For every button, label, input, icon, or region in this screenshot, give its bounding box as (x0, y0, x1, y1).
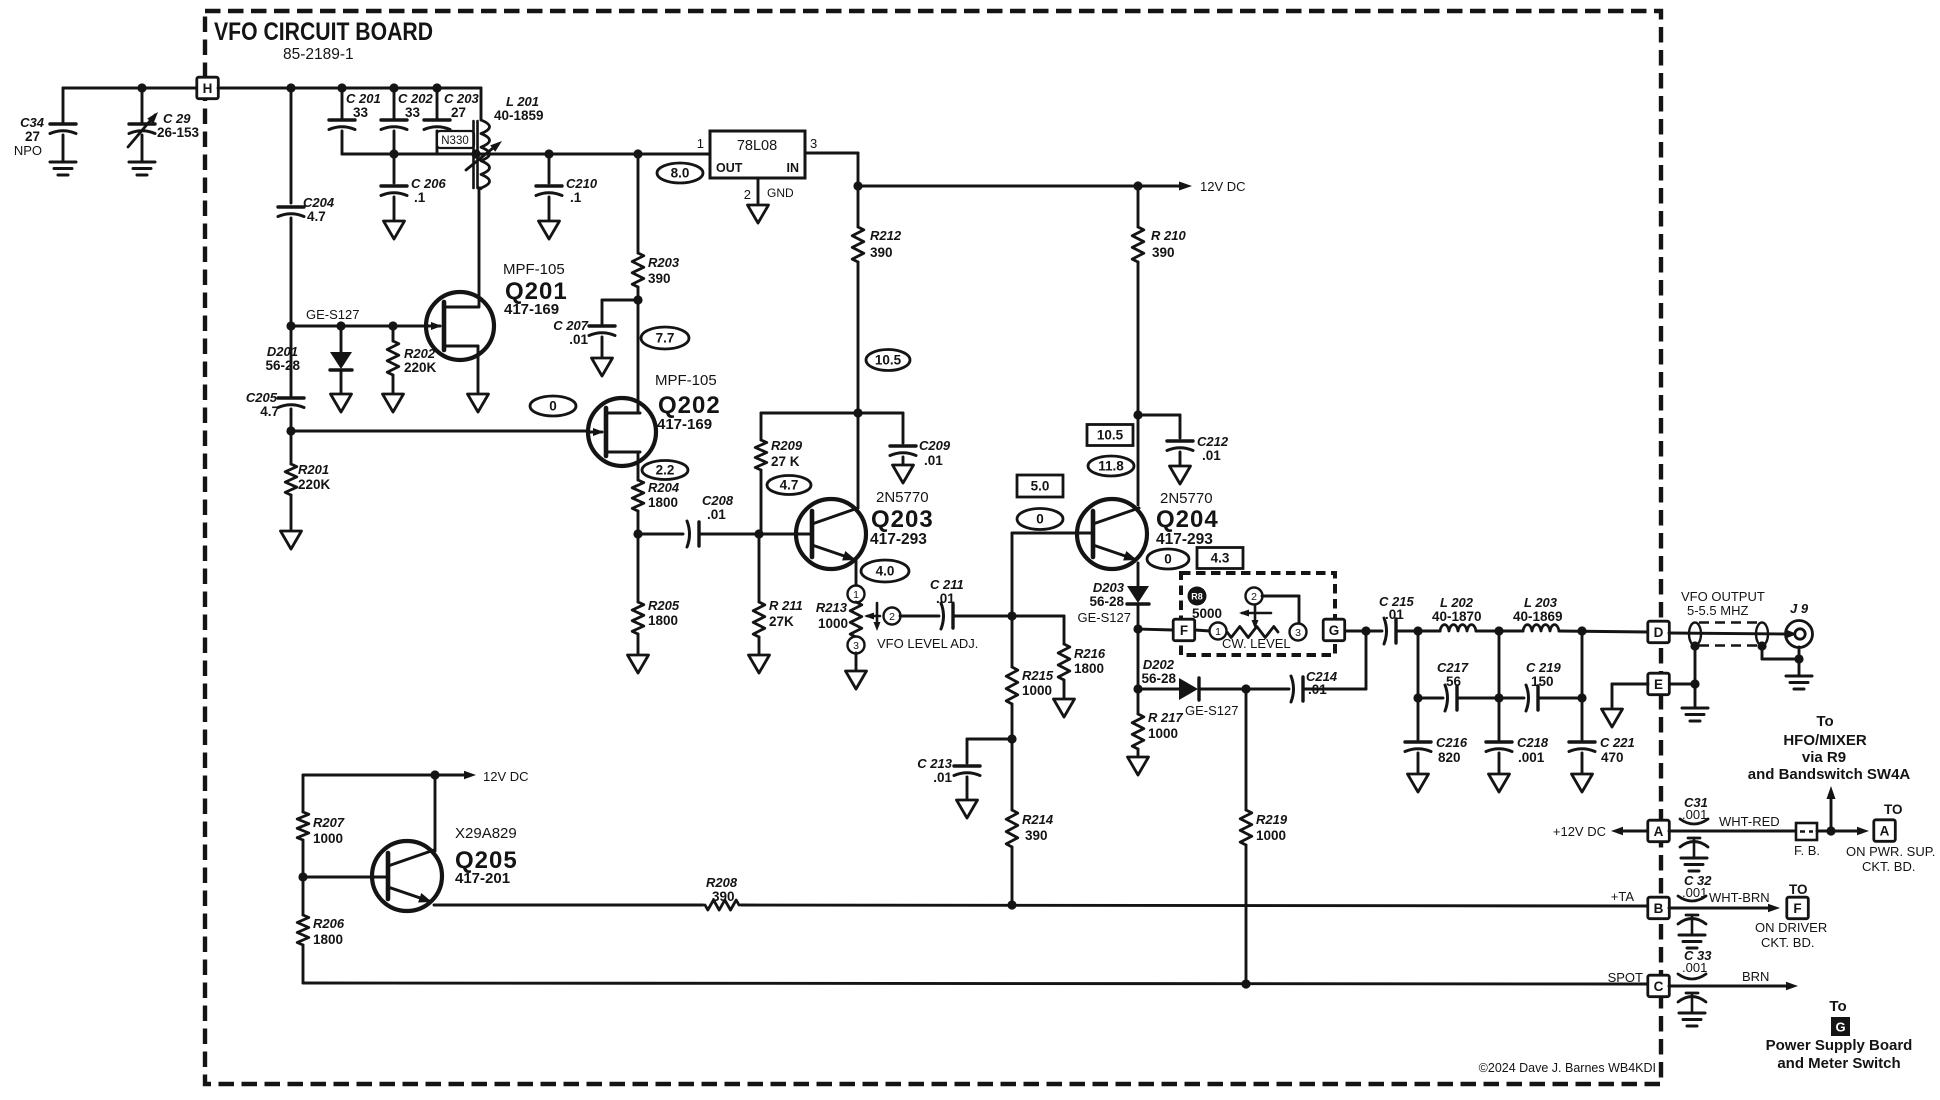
wire to F box (1138, 629, 1173, 630)
resistor R203 (637, 154, 640, 253)
ferrite bead FB box (1796, 823, 1817, 840)
svg-text:C 207: C 207 (553, 318, 588, 333)
svg-text:78L08: 78L08 (737, 138, 777, 154)
svg-text:.001: .001 (1518, 750, 1545, 765)
svg-text:R208: R208 (706, 875, 738, 890)
capacitor C213 (967, 738, 1012, 741)
svg-text:0: 0 (1164, 552, 1172, 567)
svg-text:56: 56 (1446, 674, 1462, 689)
potentiometer R213 terminal 3 (848, 637, 865, 654)
potentiometer R213 wiper arrows (867, 615, 880, 618)
svg-text:R204: R204 (648, 480, 680, 495)
potentiometer R8 terminal 2 (1246, 588, 1263, 605)
svg-text:Q202: Q202 (658, 392, 721, 419)
junction dot R209 R211 base net (754, 529, 763, 538)
svg-text:40-1859: 40-1859 (494, 108, 544, 123)
wire Q201 source to ground (477, 346, 480, 394)
wire C216 drop (1417, 631, 1420, 698)
svg-text:X29A829: X29A829 (455, 825, 517, 842)
svg-text:1: 1 (853, 589, 859, 601)
wire 12V DC feed at Q205 (303, 774, 468, 777)
capacitor C221 to ground (1581, 698, 1584, 740)
junction dot R203 bottom C207 branch (633, 295, 642, 304)
svg-text:417-169: 417-169 (657, 416, 712, 433)
junction dot C214 riser (1361, 626, 1370, 635)
svg-text:10.5: 10.5 (875, 353, 902, 368)
svg-text:R203: R203 (648, 255, 680, 270)
capacitor C209 (890, 444, 916, 447)
dashed box CW LEVEL control (1181, 573, 1335, 655)
svg-text:C 219: C 219 (1526, 660, 1561, 675)
transistor Q204 2N5770 (1077, 499, 1147, 569)
svg-text:1000: 1000 (313, 831, 343, 846)
voltage callout 5.0 box (1017, 475, 1063, 497)
resistor R209 (760, 413, 763, 440)
svg-text:27: 27 (25, 129, 40, 144)
svg-text:R 210: R 210 (1151, 228, 1186, 243)
capacitor C211 (941, 603, 944, 629)
wire to C214 (1246, 688, 1289, 691)
arrow up to HFO MIXER (1830, 794, 1833, 831)
junction dot C213 R214 node (1007, 734, 1016, 743)
svg-text:C209: C209 (919, 438, 951, 453)
label N330 box (437, 131, 474, 148)
wire B to F arrow (1669, 907, 1772, 910)
wire main rail through L201 to 78L08 (481, 153, 710, 156)
svg-text:CKT. BD.: CKT. BD. (1761, 935, 1814, 950)
junction dot C221 branch (1577, 626, 1586, 635)
svg-text:IN: IN (787, 161, 800, 175)
wire Q204 base (1012, 532, 1093, 535)
wire to C209 (858, 412, 903, 415)
capacitor C216 to ground (1417, 698, 1420, 740)
svg-text:1000: 1000 (1256, 828, 1286, 843)
svg-text:L 201: L 201 (506, 94, 539, 109)
svg-text:C212: C212 (1197, 434, 1229, 449)
junction dot R212 top (853, 181, 862, 190)
svg-text:H: H (203, 81, 213, 96)
svg-text:10.5: 10.5 (1097, 428, 1124, 443)
pin 2 GND lead (757, 178, 760, 205)
svg-text:CW. LEVEL: CW. LEVEL (1222, 636, 1291, 651)
wire A to +12V arrow (1618, 830, 1648, 833)
svg-text:TO: TO (1884, 802, 1903, 817)
svg-text:5-5.5 MHZ: 5-5.5 MHZ (1687, 603, 1748, 618)
svg-text:G: G (1329, 623, 1340, 638)
svg-text:C 202: C 202 (398, 91, 433, 106)
svg-text:33: 33 (405, 105, 421, 120)
voltage callout 2.2 oval (642, 461, 688, 480)
wire gate net Q201 (291, 325, 426, 328)
wire to R216 (1012, 615, 1064, 618)
svg-text:B: B (1654, 901, 1664, 916)
junction dot C29 top (137, 83, 146, 92)
svg-text:1: 1 (1215, 626, 1221, 638)
svg-text:and Meter Switch: and Meter Switch (1777, 1055, 1900, 1072)
wire Q203 emitter to R213 (855, 560, 858, 586)
svg-text:E: E (1654, 677, 1663, 692)
voltage callout 7.7 oval (641, 327, 689, 349)
svg-text:2N5770: 2N5770 (876, 489, 929, 506)
svg-text:4.0: 4.0 (876, 564, 895, 579)
svg-text:©2024 Dave J. Barnes WB4KDI: ©2024 Dave J. Barnes WB4KDI (1479, 1061, 1656, 1075)
svg-text:.01: .01 (569, 332, 588, 347)
wire J9 shell to ground (1798, 647, 1801, 674)
voltage callout 4.0 oval (861, 560, 909, 582)
junction dot R212 C209 node (853, 408, 862, 417)
wire SPOT bus (303, 983, 1648, 984)
wire 78L08 IN to 12V rail (805, 152, 858, 155)
svg-text:417-293: 417-293 (870, 531, 927, 548)
resistor R212 (857, 186, 860, 227)
coax shield right ellipse (1756, 623, 1768, 646)
junction dot D201 top (336, 321, 345, 330)
junction dot R201 top (286, 426, 295, 435)
wire top rail from C34 to H (63, 87, 197, 90)
junction dot L201 wire crossing (471, 149, 480, 158)
junction dot R204 bottom (633, 529, 642, 538)
junction dot C203 (432, 83, 441, 92)
diode D202 (1138, 688, 1179, 691)
capacitor C201 (341, 88, 344, 120)
junction dot R214 bottom (1007, 900, 1016, 909)
svg-text:C 206: C 206 (411, 176, 446, 191)
junction dot C212 branch (1133, 410, 1142, 419)
wire C to BRN arrow (1669, 985, 1790, 988)
ground for R202 (383, 394, 404, 412)
voltage callout 4.3 box (1197, 548, 1243, 569)
resistor R216 (1063, 616, 1066, 644)
svg-text:C205: C205 (246, 390, 278, 405)
connector C box on border (1648, 975, 1670, 997)
junction dot D202 anode node (1133, 684, 1142, 693)
junction dot coax shield left (1690, 641, 1699, 650)
svg-text:F: F (1793, 901, 1801, 916)
svg-text:417-293: 417-293 (1156, 531, 1213, 548)
svg-text:L 202: L 202 (1440, 595, 1474, 610)
junction dot C216 C217 node (1413, 693, 1422, 702)
voltage callout 0 oval at Q204 emitter (1147, 549, 1189, 569)
voltage callout 0 oval at Q202 gate (530, 396, 576, 416)
wire C221 drop (1581, 631, 1584, 698)
wire top oscillator rail H to L201 (218, 87, 481, 90)
svg-text:VFO OUTPUT: VFO OUTPUT (1681, 589, 1765, 604)
resistor R210 (1137, 186, 1140, 227)
junction dot gate wire left (286, 321, 295, 330)
wire coax shield left to ground (1694, 646, 1697, 706)
wire C219 row (1499, 697, 1524, 700)
svg-text:CKT. BD.: CKT. BD. (1862, 859, 1915, 874)
diode D203 (1127, 586, 1149, 603)
svg-text:D202: D202 (1143, 657, 1175, 672)
svg-text:+TA: +TA (1611, 889, 1635, 904)
wire Q205 collector riser (434, 775, 437, 851)
connector D box on border (1648, 621, 1670, 643)
front panel control R8 bubble (1188, 587, 1207, 606)
wire L202 to L203 (1476, 630, 1523, 633)
svg-text:C 211: C 211 (930, 577, 964, 592)
svg-text:7.7: 7.7 (656, 331, 675, 346)
capacitor C202 (393, 88, 396, 120)
capacitor C34 (62, 88, 65, 124)
inductor L201 core bars (472, 121, 475, 188)
junction dot C210 (544, 149, 553, 158)
capacitor C204 (290, 88, 293, 203)
potentiometer R8 wiper arrows (1242, 612, 1271, 615)
svg-text:390: 390 (712, 889, 735, 904)
capacitor C203 (436, 88, 439, 120)
svg-text:C: C (1654, 979, 1664, 994)
svg-text:390: 390 (648, 271, 671, 286)
svg-text:R205: R205 (648, 598, 680, 613)
svg-text:1800: 1800 (313, 932, 343, 947)
potentiometer R8 resistor (1227, 627, 1278, 638)
svg-text:390: 390 (1025, 828, 1048, 843)
svg-text:4.7: 4.7 (780, 478, 799, 493)
svg-text:5000: 5000 (1192, 606, 1222, 621)
ground for 78L08 (748, 205, 769, 223)
wire C211 to R215 node (953, 615, 1012, 618)
wire Q204 emitter to D203 (1137, 563, 1140, 586)
svg-text:VFO LEVEL ADJ.: VFO LEVEL ADJ. (877, 636, 978, 651)
junction dot C221 node (1577, 693, 1586, 702)
svg-text:To: To (1829, 998, 1846, 1015)
feedthrough capacitor C33 (1678, 974, 1706, 979)
wire C219 to C221 node (1538, 697, 1582, 700)
svg-text:40-1869: 40-1869 (1513, 609, 1563, 624)
regulator U201 78L08 box (710, 131, 805, 178)
svg-text:56-28: 56-28 (1141, 671, 1176, 686)
svg-text:220K: 220K (298, 477, 331, 492)
svg-text:D: D (1654, 625, 1664, 640)
junction dot R215 Q204 base node (1007, 611, 1016, 620)
inductor L201 tuning arrow (466, 144, 498, 170)
feedthrough capacitor C32 (1678, 896, 1706, 901)
svg-text:40-1870: 40-1870 (1432, 609, 1482, 624)
svg-text:Power Supply Board: Power Supply Board (1766, 1037, 1913, 1054)
wire C217 to C218 node (1457, 697, 1499, 700)
svg-text:85-2189-1: 85-2189-1 (283, 46, 354, 63)
connector B box on border (1648, 897, 1670, 919)
svg-text:470: 470 (1601, 750, 1624, 765)
svg-text:NPO: NPO (14, 143, 42, 158)
svg-text:+12V DC: +12V DC (1553, 824, 1606, 839)
wire Q205 base (303, 876, 388, 879)
coax shield dashed lines (1699, 621, 1760, 623)
junction dot R219 bottom (1241, 979, 1250, 988)
svg-text:ON DRIVER: ON DRIVER (1755, 920, 1827, 935)
ground for R213 (846, 671, 867, 689)
ground for R205 (628, 655, 649, 673)
svg-text:390: 390 (870, 245, 893, 260)
svg-text:5.0: 5.0 (1031, 479, 1050, 494)
junction dot C202 (389, 83, 398, 92)
svg-text:1000: 1000 (818, 616, 848, 631)
potentiometer R213 terminal 2 (884, 608, 901, 625)
svg-text:12V DC: 12V DC (1200, 179, 1246, 194)
junction dot Q205 base node (298, 872, 307, 881)
svg-text:R212: R212 (870, 228, 902, 243)
voltage callout 0 oval at Q204 base (1017, 509, 1063, 530)
svg-text:A: A (1654, 824, 1664, 839)
svg-text:R 217: R 217 (1148, 710, 1183, 725)
svg-text:2: 2 (889, 611, 895, 623)
resistor R205 (637, 534, 640, 602)
wire R209 top to R212 line (761, 412, 858, 415)
wire R213 to ground (855, 653, 858, 671)
ground for C207 (592, 358, 613, 376)
svg-text:2: 2 (744, 187, 751, 202)
wire base net to Q203 (759, 533, 812, 536)
svg-text:27 K: 27 K (771, 454, 800, 469)
svg-text:417-201: 417-201 (455, 870, 510, 887)
ground for C210 (539, 221, 560, 239)
svg-text:C34: C34 (20, 115, 45, 130)
svg-text:820: 820 (1438, 750, 1461, 765)
svg-text:150: 150 (1531, 674, 1554, 689)
capacitor C210 (548, 154, 551, 183)
svg-text:J 9: J 9 (1790, 601, 1809, 616)
svg-text:WHT-RED: WHT-RED (1719, 814, 1780, 829)
svg-text:C217: C217 (1437, 660, 1469, 675)
junction dot C204 branch (286, 83, 295, 92)
ground for C221 (1572, 774, 1593, 792)
wire D to J9 center conductor (1669, 633, 1788, 634)
capacitor C214 (1291, 676, 1294, 702)
wire 12V DC rail (858, 185, 1184, 188)
junction dot R202 top (388, 321, 397, 330)
svg-text:27: 27 (451, 105, 466, 120)
wire L201 bottom to Q201 drain (479, 187, 481, 190)
svg-text:390: 390 (1152, 245, 1175, 260)
connector A box on border (1648, 820, 1670, 842)
svg-text:GE-S127: GE-S127 (1078, 610, 1131, 625)
svg-text:1000: 1000 (1022, 683, 1052, 698)
svg-text:8.0: 8.0 (671, 166, 690, 181)
ground for R216 (1054, 699, 1075, 717)
svg-text:4.3: 4.3 (1211, 551, 1230, 566)
svg-text:C210: C210 (566, 176, 598, 191)
variable capacitor C29 (141, 88, 144, 124)
svg-text:0: 0 (1036, 512, 1044, 527)
junction dot R210 top (1133, 181, 1142, 190)
potentiometer R8 terminal 3 (1290, 624, 1307, 641)
svg-text:.01: .01 (936, 591, 955, 606)
svg-text:N330: N330 (441, 135, 469, 147)
svg-text:1000: 1000 (1148, 726, 1178, 741)
wire Q202 source to R204 (637, 452, 640, 480)
ground for C216 (1408, 774, 1429, 792)
resistor R204 (632, 480, 644, 511)
capacitor C218 to ground (1498, 698, 1501, 740)
coax shield left ellipse (1689, 623, 1701, 646)
ground for R201 (281, 531, 302, 549)
svg-text:R202: R202 (404, 346, 436, 361)
voltage callout 10.5 box (1087, 425, 1133, 446)
svg-text:HFO/MIXER: HFO/MIXER (1783, 732, 1867, 749)
capacitor C212 (1138, 414, 1180, 417)
ground for D201 (331, 394, 352, 412)
voltage callout 10.5 oval (866, 350, 910, 371)
svg-text:MPF-105: MPF-105 (655, 372, 717, 389)
svg-text:R209: R209 (771, 438, 803, 453)
ground for R211 (749, 655, 770, 673)
svg-text:Q204: Q204 (1156, 506, 1219, 533)
ground for C29 (129, 161, 155, 164)
resistor R219 (1245, 689, 1248, 810)
resistor R202 (392, 326, 395, 341)
wire coax shield to J9 ground (1757, 641, 1766, 650)
resistor R217 (1137, 689, 1140, 714)
svg-text:3: 3 (1295, 627, 1301, 639)
ground for C209 (893, 465, 914, 483)
capacitor C207 (602, 299, 638, 302)
resistor R211 (758, 534, 761, 602)
svg-text:A: A (1880, 824, 1890, 839)
svg-text:ON PWR. SUP.: ON PWR. SUP. (1846, 844, 1935, 859)
svg-text:SPOT: SPOT (1608, 970, 1643, 985)
svg-text:R201: R201 (298, 462, 329, 477)
transistor Q201 MPF-105 JFET (426, 292, 494, 360)
svg-text:.001: .001 (1682, 960, 1707, 975)
capacitor C208 (638, 533, 683, 536)
wire D203 node down to D202 node (1137, 629, 1140, 689)
potentiometer R213 terminal 1 (848, 586, 865, 603)
svg-text:VFO CIRCUIT BOARD: VFO CIRCUIT BOARD (214, 18, 433, 46)
wire FB to TO-A (1817, 830, 1863, 833)
dashed board outline border (205, 11, 1661, 1084)
svg-text:R 211: R 211 (769, 598, 803, 613)
svg-text:F. B.: F. B. (1794, 843, 1820, 858)
svg-text:R216: R216 (1074, 646, 1106, 661)
wire A to FB (1669, 830, 1796, 833)
svg-text:C 221: C 221 (1600, 735, 1635, 750)
ground for C206 (384, 221, 405, 239)
earth ground at J9 (1786, 675, 1812, 678)
svg-text:GE-S127: GE-S127 (1185, 703, 1238, 718)
svg-text:.01: .01 (1385, 607, 1404, 622)
diode D201 (340, 326, 343, 352)
svg-text:R213: R213 (816, 600, 848, 615)
junction dot Q205 collector (430, 770, 439, 779)
wire Q204 collector up to R210 (1137, 415, 1140, 505)
svg-text:1800: 1800 (1074, 661, 1104, 676)
svg-text:R207: R207 (313, 815, 345, 830)
wire F to R8 terminal 1 (1195, 630, 1210, 631)
resistor R208 (705, 900, 739, 910)
wire capacitor bottom bus (342, 153, 481, 156)
12V DC arrowhead and label (1179, 182, 1192, 191)
svg-text:C 29: C 29 (163, 111, 191, 126)
svg-text:TO: TO (1789, 882, 1808, 897)
svg-text:C208: C208 (702, 493, 734, 508)
svg-text:C216: C216 (1436, 735, 1468, 750)
svg-text:.01: .01 (924, 453, 943, 468)
capacitor C217 (1445, 685, 1448, 711)
svg-text:11.8: 11.8 (1098, 459, 1124, 474)
wire D202 cathode to R219 (1200, 688, 1246, 691)
svg-text:0: 0 (549, 399, 557, 414)
svg-text:2.2: 2.2 (656, 463, 675, 478)
wire Q202 gate net (291, 430, 587, 433)
svg-text:R8: R8 (1191, 592, 1203, 602)
wire E to ground triangle (1612, 683, 1648, 686)
capacitor C205 (290, 326, 293, 398)
wire +TA bus from Q205 emitter (434, 904, 703, 907)
connector F box (1173, 619, 1195, 641)
svg-text:56-28: 56-28 (265, 358, 300, 373)
wire C215 to L202 (1396, 630, 1440, 633)
